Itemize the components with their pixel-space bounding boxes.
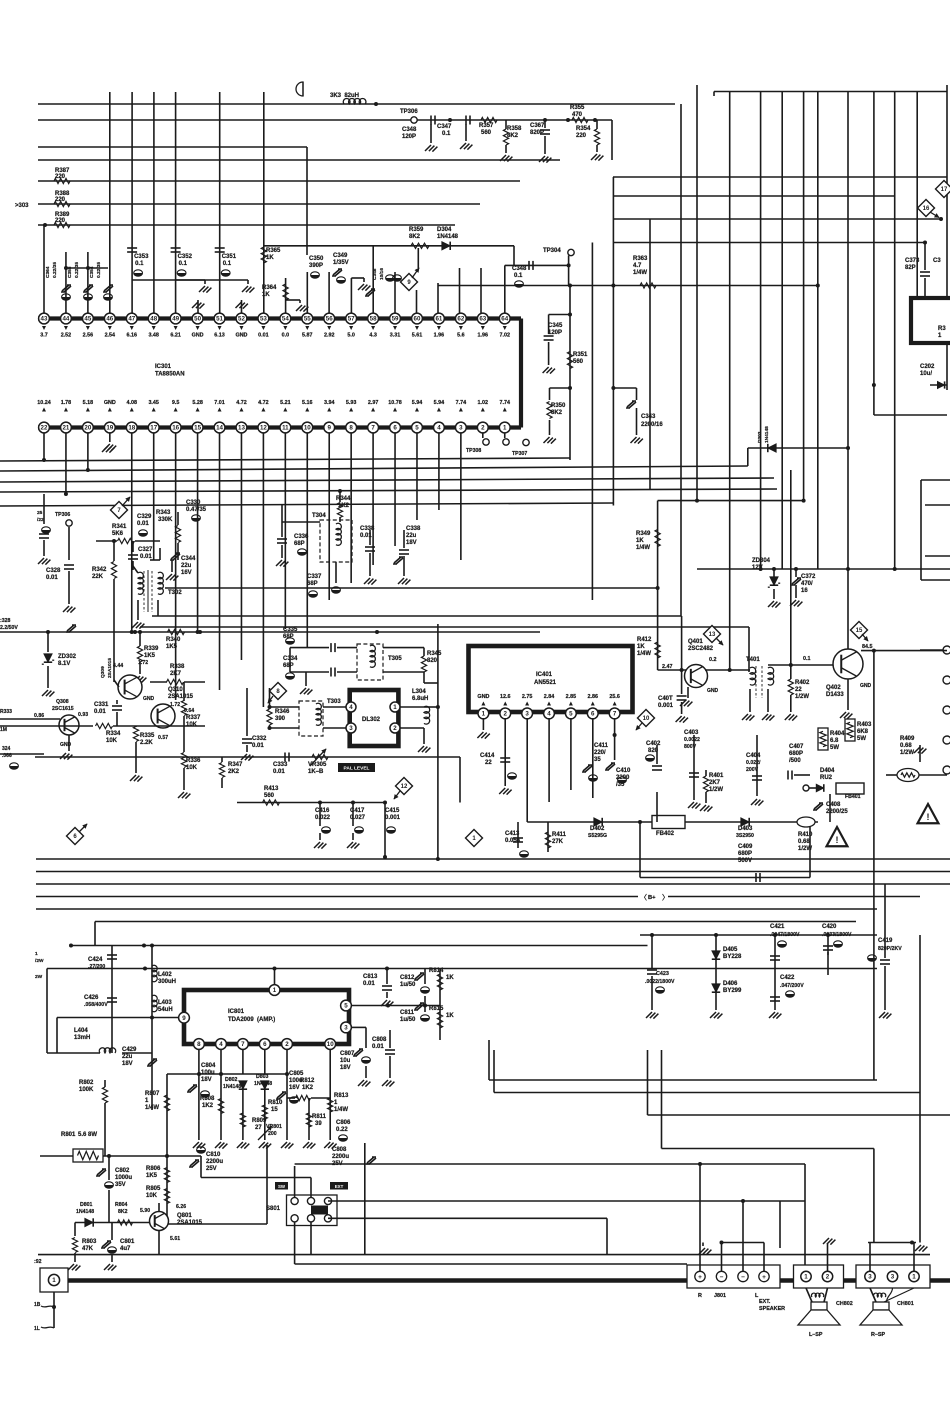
svg-text:ZD304: ZD304 xyxy=(752,558,771,564)
svg-text:5.93: 5.93 xyxy=(346,400,357,406)
svg-text:2: 2 xyxy=(285,1041,289,1048)
svg-text:R339: R339 xyxy=(144,646,159,652)
svg-text:C202: C202 xyxy=(920,364,935,370)
svg-text:0.22/35: 0.22/35 xyxy=(96,262,102,278)
svg-text:5W: 5W xyxy=(857,736,866,742)
svg-text:R804: R804 xyxy=(115,1202,128,1208)
svg-text:5.0: 5.0 xyxy=(347,333,355,339)
svg-text:1.96: 1.96 xyxy=(434,333,445,339)
svg-text:SW: SW xyxy=(278,1184,286,1189)
svg-text:C426: C426 xyxy=(84,995,99,1001)
svg-text:R806: R806 xyxy=(146,1166,161,1172)
svg-text:/2W: /2W xyxy=(35,958,44,964)
svg-text:7: 7 xyxy=(241,1041,245,1048)
svg-text:68P: 68P xyxy=(283,663,294,669)
svg-text:C330: C330 xyxy=(186,500,201,506)
svg-text:C413: C413 xyxy=(505,831,520,837)
svg-text:3.45: 3.45 xyxy=(148,400,159,406)
svg-text:680P: 680P xyxy=(738,851,752,857)
svg-text:C404: C404 xyxy=(746,753,761,759)
svg-text:1K: 1K xyxy=(262,292,270,298)
svg-text:120P: 120P xyxy=(548,330,562,336)
svg-text:1/4W: 1/4W xyxy=(334,1107,348,1113)
svg-text:0.22: 0.22 xyxy=(336,1127,348,1133)
svg-text:61: 61 xyxy=(435,316,442,323)
svg-text:470/: 470/ xyxy=(801,581,813,587)
svg-text:L403: L403 xyxy=(158,1000,172,1006)
svg-text:330K: 330K xyxy=(158,517,173,523)
svg-text:12: 12 xyxy=(260,425,267,432)
svg-text:1K: 1K xyxy=(637,644,645,650)
svg-text:R334: R334 xyxy=(106,731,121,737)
svg-text:11: 11 xyxy=(282,425,289,432)
svg-text:100u: 100u xyxy=(201,1070,215,1076)
svg-text:TP308: TP308 xyxy=(466,448,481,454)
svg-text:0.93: 0.93 xyxy=(78,712,88,718)
svg-text:.058/400V: .058/400V xyxy=(84,1002,108,1008)
svg-text:5: 5 xyxy=(344,1003,348,1010)
svg-text:1K2: 1K2 xyxy=(302,1085,314,1091)
svg-text:0.01: 0.01 xyxy=(94,709,106,715)
svg-text:GND: GND xyxy=(860,683,872,689)
svg-text:16: 16 xyxy=(801,588,808,594)
svg-text:IC401: IC401 xyxy=(536,672,553,678)
svg-text:D803: D803 xyxy=(256,1074,269,1080)
svg-text:C338: C338 xyxy=(360,526,375,532)
svg-text:C420: C420 xyxy=(822,924,837,930)
svg-text:C408: C408 xyxy=(826,802,841,808)
svg-text:12.6: 12.6 xyxy=(500,694,511,700)
svg-text:220: 220 xyxy=(55,218,66,224)
svg-text:1u/50: 1u/50 xyxy=(400,1017,416,1023)
svg-text:220: 220 xyxy=(55,174,66,180)
svg-text:R805: R805 xyxy=(146,1186,161,1192)
svg-text:C812: C812 xyxy=(400,975,415,981)
svg-text:10K: 10K xyxy=(186,765,198,771)
svg-text:R343: R343 xyxy=(156,510,171,516)
svg-text:2: 2 xyxy=(481,425,485,432)
svg-text:SPEAKER: SPEAKER xyxy=(759,1306,785,1312)
svg-text:18V: 18V xyxy=(340,1065,351,1071)
svg-text:0.01: 0.01 xyxy=(363,981,375,987)
svg-text:R807: R807 xyxy=(145,1091,160,1097)
svg-text:7: 7 xyxy=(613,711,617,718)
svg-text:2K7: 2K7 xyxy=(170,671,182,677)
svg-text:820: 820 xyxy=(648,748,659,754)
svg-text:!: ! xyxy=(836,835,839,845)
svg-text:3: 3 xyxy=(891,1274,895,1281)
svg-text:6: 6 xyxy=(263,1041,267,1048)
svg-text:18: 18 xyxy=(128,425,135,432)
svg-text:390P: 390P xyxy=(309,263,323,269)
svg-text:R365: R365 xyxy=(266,248,281,254)
svg-text:GND: GND xyxy=(143,696,155,702)
svg-text:21: 21 xyxy=(62,425,69,432)
svg-text:1: 1 xyxy=(503,425,507,432)
svg-text:16V: 16V xyxy=(181,570,192,576)
svg-text:48: 48 xyxy=(150,316,157,323)
svg-text:2.2K: 2.2K xyxy=(140,740,153,746)
svg-text:82P: 82P xyxy=(905,265,916,271)
svg-text:R364: R364 xyxy=(262,285,277,291)
svg-text:R346: R346 xyxy=(275,709,290,715)
svg-text:1/4W: 1/4W xyxy=(636,545,650,551)
svg-text:〈: 〈 xyxy=(640,894,647,902)
svg-text:C348: C348 xyxy=(402,127,417,133)
svg-text:100K: 100K xyxy=(79,1087,94,1093)
svg-text:R351: R351 xyxy=(573,352,588,358)
svg-text:T303: T303 xyxy=(327,699,341,705)
svg-text:5.18: 5.18 xyxy=(83,400,94,406)
svg-text:120P: 120P xyxy=(402,134,416,140)
svg-text:2200u: 2200u xyxy=(206,1159,223,1165)
svg-text:1K–B: 1K–B xyxy=(308,769,324,775)
svg-text:44: 44 xyxy=(62,316,69,323)
svg-text:C403: C403 xyxy=(684,730,699,736)
svg-text:35: 35 xyxy=(594,757,601,763)
svg-text:1K: 1K xyxy=(266,255,274,261)
svg-text:27: 27 xyxy=(255,1125,262,1131)
svg-text:18V: 18V xyxy=(406,540,417,546)
svg-text:−: − xyxy=(720,1274,724,1281)
svg-text:C334: C334 xyxy=(283,656,298,662)
svg-text:25.6: 25.6 xyxy=(609,694,620,700)
svg-text:C416: C416 xyxy=(315,808,330,814)
svg-text:〉: 〉 xyxy=(662,894,669,902)
svg-text:220: 220 xyxy=(576,133,587,139)
svg-text:R404: R404 xyxy=(830,731,845,737)
svg-text:47K: 47K xyxy=(82,1246,94,1252)
svg-text:64: 64 xyxy=(501,316,508,323)
svg-text:R802: R802 xyxy=(79,1080,94,1086)
svg-text:VR801: VR801 xyxy=(266,1124,282,1130)
svg-text:60: 60 xyxy=(414,316,421,323)
svg-text:C422: C422 xyxy=(780,975,795,981)
svg-text:C350: C350 xyxy=(309,256,324,262)
svg-text:2K2: 2K2 xyxy=(228,769,240,775)
svg-text:R3: R3 xyxy=(938,326,946,332)
svg-text:R808: R808 xyxy=(200,1096,215,1102)
svg-text:2.56: 2.56 xyxy=(83,333,94,339)
svg-text:53: 53 xyxy=(260,316,267,323)
svg-text:R: R xyxy=(698,1293,702,1299)
svg-text:TDA2009 (AMP.): TDA2009 (AMP.) xyxy=(228,1017,275,1023)
svg-text:57: 57 xyxy=(348,316,355,323)
svg-text:C808: C808 xyxy=(372,1037,387,1043)
svg-text:GND: GND xyxy=(477,694,489,700)
svg-text:2W: 2W xyxy=(35,974,43,980)
svg-text:13: 13 xyxy=(709,632,716,638)
svg-text:C352: C352 xyxy=(178,254,193,260)
svg-text:FB401: FB401 xyxy=(845,794,861,800)
svg-text:D802: D802 xyxy=(225,1077,238,1083)
svg-text:B+: B+ xyxy=(648,895,656,901)
svg-text:0.1: 0.1 xyxy=(135,261,144,267)
svg-text:GND: GND xyxy=(707,688,719,694)
svg-text:R340: R340 xyxy=(166,637,181,643)
svg-text:R812: R812 xyxy=(300,1078,315,1084)
svg-text:TP306: TP306 xyxy=(55,512,70,518)
svg-text:5.6 8W: 5.6 8W xyxy=(78,1132,97,1138)
svg-text:1/2W: 1/2W xyxy=(900,750,914,756)
svg-text:68P: 68P xyxy=(283,634,294,640)
svg-text:+: + xyxy=(762,1274,766,1281)
svg-text:D1433: D1433 xyxy=(826,692,844,698)
svg-text:0.68: 0.68 xyxy=(798,839,810,845)
svg-text:1.78: 1.78 xyxy=(61,400,72,406)
svg-text:2: 2 xyxy=(826,1274,830,1281)
svg-text:BY228: BY228 xyxy=(723,954,742,960)
svg-text:C808: C808 xyxy=(332,1147,347,1153)
svg-text:R350: R350 xyxy=(551,403,566,409)
svg-text:R810: R810 xyxy=(268,1100,283,1106)
svg-text:470: 470 xyxy=(572,112,583,118)
svg-text:R358: R358 xyxy=(507,126,522,132)
svg-text:L–SP: L–SP xyxy=(809,1332,823,1338)
svg-text:PAL LEVEL: PAL LEVEL xyxy=(344,766,370,772)
svg-text:Q310: Q310 xyxy=(168,687,183,693)
svg-text:R815: R815 xyxy=(429,1006,444,1012)
svg-text:3: 3 xyxy=(525,711,529,718)
svg-text:C409: C409 xyxy=(738,844,753,850)
svg-text:T401: T401 xyxy=(746,657,760,663)
svg-text:680P: 680P xyxy=(789,751,803,757)
svg-text:C805: C805 xyxy=(289,1071,304,1077)
svg-text:560: 560 xyxy=(481,130,492,136)
svg-text:14: 14 xyxy=(216,425,223,432)
svg-text:18V: 18V xyxy=(201,1077,212,1083)
svg-text:R355: R355 xyxy=(570,105,585,111)
svg-text:1: 1 xyxy=(912,1274,916,1281)
svg-text:16: 16 xyxy=(923,206,930,212)
svg-text:19: 19 xyxy=(106,425,113,432)
svg-text:22: 22 xyxy=(795,687,802,693)
svg-text:D801: D801 xyxy=(80,1202,93,1208)
svg-text:1N4148: 1N4148 xyxy=(764,426,770,443)
svg-text:C804: C804 xyxy=(201,1063,216,1069)
svg-text:C336: C336 xyxy=(294,534,309,540)
svg-text:2SC1615: 2SC1615 xyxy=(52,706,74,712)
svg-text:10: 10 xyxy=(643,716,650,722)
svg-text:820P/2KV: 820P/2KV xyxy=(878,946,902,952)
svg-text:C810: C810 xyxy=(206,1152,221,1158)
svg-text:C806: C806 xyxy=(336,1120,351,1126)
svg-text:1: 1 xyxy=(804,1274,808,1281)
svg-text:5.90: 5.90 xyxy=(140,1208,150,1214)
svg-text:L402: L402 xyxy=(158,972,172,978)
svg-text:3.94: 3.94 xyxy=(324,400,335,406)
svg-text:/22: /22 xyxy=(37,517,44,523)
svg-text:0.01: 0.01 xyxy=(372,1044,384,1050)
svg-text:200: 200 xyxy=(268,1131,277,1137)
svg-text:+: + xyxy=(698,1274,702,1281)
svg-text:D304: D304 xyxy=(437,227,452,233)
svg-text:0.47/35: 0.47/35 xyxy=(186,507,207,513)
svg-text:R801: R801 xyxy=(61,1132,76,1138)
svg-text:39: 39 xyxy=(315,1121,322,1127)
svg-text:C419: C419 xyxy=(878,938,893,944)
svg-text:200V: 200V xyxy=(746,767,759,773)
svg-text:5.21: 5.21 xyxy=(280,400,291,406)
svg-text:10K: 10K xyxy=(146,1193,158,1199)
svg-text:56: 56 xyxy=(326,316,333,323)
svg-text:4u7: 4u7 xyxy=(120,1246,131,1252)
svg-text:S5295G: S5295G xyxy=(588,833,607,839)
svg-text:25: 25 xyxy=(37,510,43,516)
svg-text:1K: 1K xyxy=(446,1013,454,1019)
svg-text:C417: C417 xyxy=(350,808,365,814)
svg-text:0.056: 0.056 xyxy=(505,838,521,844)
svg-text:T305: T305 xyxy=(388,656,402,662)
svg-text:7.02: 7.02 xyxy=(499,333,510,339)
svg-text:4.44: 4.44 xyxy=(113,663,123,669)
svg-text:C801: C801 xyxy=(120,1239,135,1245)
svg-text:C343: C343 xyxy=(641,414,656,420)
svg-text:1K2: 1K2 xyxy=(202,1103,214,1109)
svg-text:R412: R412 xyxy=(637,637,652,643)
svg-text:C349: C349 xyxy=(333,253,348,259)
svg-text:R337: R337 xyxy=(186,715,201,721)
svg-text:6K8: 6K8 xyxy=(857,729,869,735)
svg-text:2.86: 2.86 xyxy=(588,694,599,700)
svg-text:5.61: 5.61 xyxy=(170,1236,180,1242)
svg-text:IC301: IC301 xyxy=(155,364,172,370)
svg-text:R345: R345 xyxy=(427,651,442,657)
svg-text:0.1: 0.1 xyxy=(179,261,188,267)
svg-text:17: 17 xyxy=(941,187,948,193)
svg-text:C415: C415 xyxy=(385,808,400,814)
svg-text:IC801: IC801 xyxy=(228,1009,245,1015)
svg-text:.0022/1800V: .0022/1800V xyxy=(645,979,675,985)
svg-text:1K5: 1K5 xyxy=(144,653,156,659)
svg-text:1000u: 1000u xyxy=(115,1175,132,1181)
svg-text:0.01: 0.01 xyxy=(258,333,269,339)
svg-text:R803: R803 xyxy=(82,1239,97,1245)
svg-text:C802: C802 xyxy=(115,1168,130,1174)
svg-text:C332: C332 xyxy=(252,736,267,742)
svg-text:D405: D405 xyxy=(723,947,738,953)
svg-text:R338: R338 xyxy=(170,664,185,670)
svg-text:1L: 1L xyxy=(34,1326,40,1332)
svg-text:2.97: 2.97 xyxy=(368,400,379,406)
svg-text:1M: 1M xyxy=(0,727,7,733)
svg-text:R401: R401 xyxy=(709,773,724,779)
svg-text:1: 1 xyxy=(482,711,486,718)
svg-text:.0033/1800V: .0033/1800V xyxy=(822,932,852,938)
svg-text:C338: C338 xyxy=(406,526,421,532)
svg-text:10.24: 10.24 xyxy=(37,400,51,406)
svg-text:0.22/35: 0.22/35 xyxy=(74,262,80,278)
svg-text:22u: 22u xyxy=(181,563,192,569)
svg-text:EXT.: EXT. xyxy=(759,1299,771,1305)
svg-text:R–SP: R–SP xyxy=(871,1332,885,1338)
svg-text:1.72: 1.72 xyxy=(138,660,148,666)
svg-text:0.01: 0.01 xyxy=(137,521,149,527)
svg-text:8: 8 xyxy=(197,1041,201,1048)
svg-text:15: 15 xyxy=(194,425,201,432)
svg-text:R813: R813 xyxy=(334,1093,349,1099)
svg-text:1/2W: 1/2W xyxy=(795,694,809,700)
svg-text:1.72: 1.72 xyxy=(170,702,180,708)
svg-text:5.16: 5.16 xyxy=(302,400,313,406)
svg-text:0.022: 0.022 xyxy=(315,815,331,821)
svg-text:C351: C351 xyxy=(222,254,237,260)
svg-text:VR305: VR305 xyxy=(308,762,327,768)
svg-text:13: 13 xyxy=(238,425,245,432)
svg-text:C423: C423 xyxy=(656,971,669,977)
svg-text:.047/200V: .047/200V xyxy=(780,983,804,989)
svg-text:C410: C410 xyxy=(616,768,631,774)
svg-text:T304: T304 xyxy=(312,513,326,519)
svg-text:R410: R410 xyxy=(798,832,813,838)
svg-text:Q309: Q309 xyxy=(100,666,106,678)
svg-text:9.5: 9.5 xyxy=(172,400,180,406)
svg-text:C807: C807 xyxy=(340,1051,355,1057)
svg-text:2SA1015: 2SA1015 xyxy=(177,1220,203,1226)
svg-text:C344: C344 xyxy=(181,556,196,562)
svg-text:C335: C335 xyxy=(283,627,298,633)
svg-text:Q801: Q801 xyxy=(177,1213,192,1219)
svg-text:2SA1015: 2SA1015 xyxy=(168,694,194,700)
svg-text:1/4W: 1/4W xyxy=(637,651,651,657)
svg-text:0.027: 0.027 xyxy=(350,815,366,821)
svg-text:8K2: 8K2 xyxy=(409,234,421,240)
svg-text:R347: R347 xyxy=(228,762,243,768)
svg-text:C811: C811 xyxy=(400,1010,415,1016)
svg-text:R341: R341 xyxy=(112,524,127,530)
svg-text:0.86: 0.86 xyxy=(34,713,44,719)
svg-text:4: 4 xyxy=(547,711,551,718)
svg-text:R342: R342 xyxy=(92,567,107,573)
svg-text:5.28: 5.28 xyxy=(192,400,203,406)
svg-text:2.47: 2.47 xyxy=(662,664,673,670)
svg-text:220: 220 xyxy=(55,197,66,203)
svg-text:C353: C353 xyxy=(134,254,149,260)
svg-text:GND: GND xyxy=(235,333,247,339)
svg-text:R359: R359 xyxy=(409,227,424,233)
svg-text:0.0022: 0.0022 xyxy=(684,737,700,743)
svg-text:6.13: 6.13 xyxy=(214,333,225,339)
svg-text:13mH: 13mH xyxy=(74,1035,90,1041)
svg-text:5.87: 5.87 xyxy=(302,333,313,339)
svg-text:TP306: TP306 xyxy=(400,109,418,115)
svg-text:C337: C337 xyxy=(307,574,322,580)
svg-text:R402: R402 xyxy=(795,680,810,686)
svg-text:3.7: 3.7 xyxy=(40,333,48,339)
svg-text:R357: R357 xyxy=(479,123,494,129)
svg-text:0.68: 0.68 xyxy=(900,743,912,749)
svg-text:C373: C373 xyxy=(905,258,920,264)
svg-text:1.02: 1.02 xyxy=(478,400,489,406)
svg-text:/500: /500 xyxy=(789,758,801,764)
svg-text:4: 4 xyxy=(349,704,353,711)
svg-text:R333: R333 xyxy=(0,709,12,715)
svg-text:R349: R349 xyxy=(636,531,651,537)
svg-text:C813: C813 xyxy=(363,974,378,980)
svg-text:5.61: 5.61 xyxy=(412,333,423,339)
svg-text:D303: D303 xyxy=(757,431,763,443)
svg-text:59: 59 xyxy=(392,316,399,323)
svg-text:2.84: 2.84 xyxy=(544,694,555,700)
svg-text:6.8: 6.8 xyxy=(830,738,839,744)
svg-text:9: 9 xyxy=(182,1015,186,1022)
svg-text:22u: 22u xyxy=(122,1054,133,1060)
svg-text:R811: R811 xyxy=(312,1114,327,1120)
svg-text:17: 17 xyxy=(150,425,157,432)
svg-text:12: 12 xyxy=(401,784,408,790)
svg-text:7.74: 7.74 xyxy=(499,400,510,406)
svg-text:1: 1 xyxy=(273,987,277,994)
